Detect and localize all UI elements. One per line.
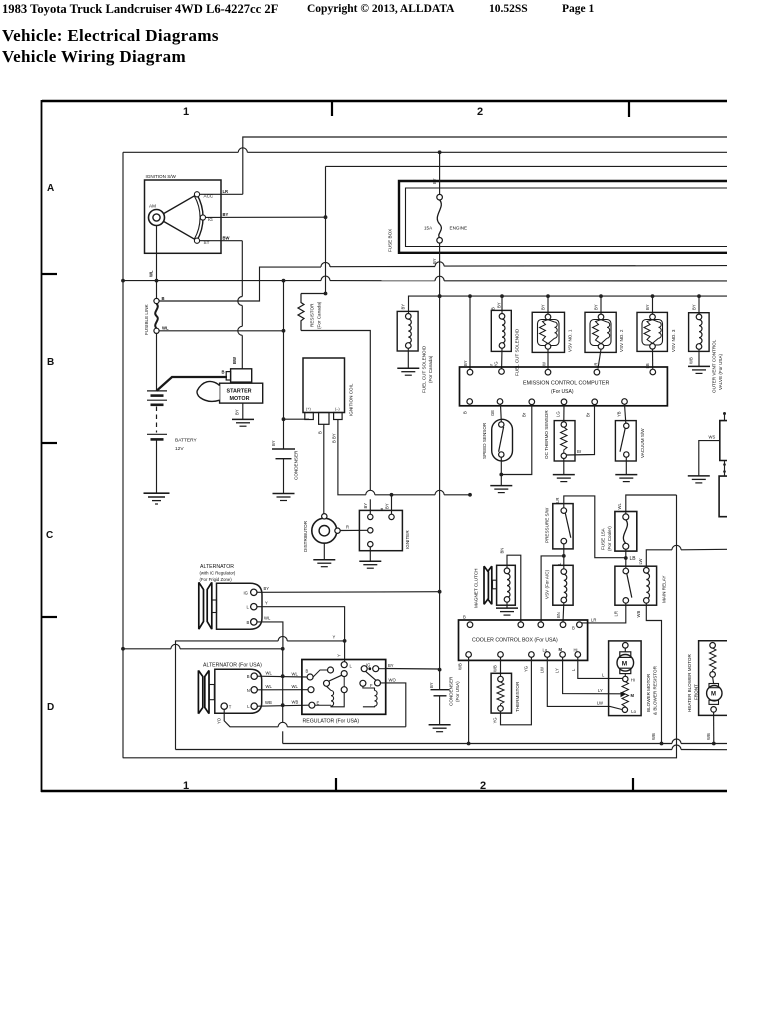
condenser USA ground: [429, 725, 451, 732]
border frame left line: [41, 100, 43, 792]
row label B: [47, 357, 54, 368]
svg-text:HEATER BLOWER MOTOR: HEATER BLOWER MOTOR: [687, 654, 692, 712]
regulator box: [302, 660, 386, 725]
svg-text:B: B: [306, 669, 309, 674]
battery ground: [144, 493, 170, 504]
svg-text:CONDENSER: CONDENSER: [294, 450, 299, 480]
svg-text:LR: LR: [223, 189, 229, 194]
wire fusible WL to x283.5: [159, 329, 285, 333]
wire LR net: ACC up and right to edge: [243, 137, 727, 194]
OC thermo sensor: [544, 405, 575, 461]
main relay box: [615, 566, 667, 605]
wire WL to regulator y648.8: [123, 644, 285, 650]
svg-text:BY: BY: [400, 304, 405, 310]
svg-text:WL: WL: [149, 270, 154, 277]
svg-text:VSV NO. 2: VSV NO. 2: [619, 329, 624, 352]
svg-text:T: T: [229, 705, 232, 710]
svg-text:M: M: [631, 693, 635, 698]
svg-text:STARTER: STARTER: [227, 388, 252, 394]
svg-text:IGNITION S/W: IGNITION S/W: [146, 174, 177, 179]
fuel cut solenoid: [489, 296, 520, 376]
battery ground wire: [156, 441, 158, 493]
starter solenoid B tab: [222, 370, 231, 381]
svg-text:B: B: [572, 626, 575, 631]
svg-text:L: L: [247, 704, 250, 709]
alternator USA label: [203, 663, 262, 669]
svg-text:OC THERMO SENSOR: OC THERMO SENSOR: [544, 410, 549, 459]
condenser ground: [273, 494, 295, 501]
magnet clutch ground: [496, 602, 518, 615]
svg-text:MAGNET CLUTCH: MAGNET CLUTCH: [474, 569, 479, 608]
svg-text:2: 2: [477, 106, 483, 118]
svg-text:BY: BY: [271, 440, 276, 446]
ignition switch box: [145, 174, 222, 253]
wire fuse engine down to BY bus and coil feed: [438, 243, 442, 671]
bottom tick 1/2: [335, 778, 337, 791]
wire B net y266 from fusible link with hops: [157, 262, 727, 301]
svg-text:R: R: [346, 525, 349, 530]
distributor ground: [313, 560, 335, 567]
regulator B terminal: [306, 667, 334, 680]
svg-text:B: B: [247, 620, 250, 625]
wire main relay LW: [638, 545, 727, 567]
svg-text:Hi: Hi: [574, 648, 578, 653]
svg-text:L: L: [571, 668, 576, 671]
wire frigid B WL down: [257, 616, 283, 649]
fusible link body: [144, 303, 158, 335]
fuel cut solenoid (For Canada): [397, 304, 433, 393]
main relay switch: [623, 568, 632, 603]
svg-text:WB: WB: [493, 665, 498, 672]
header issue number: [489, 3, 528, 15]
svg-text:B: B: [222, 370, 225, 375]
svg-text:(–): (–): [335, 407, 340, 411]
svg-text:BY: BY: [429, 682, 434, 688]
wire frigid IG BY to x439.6: [257, 586, 440, 592]
VSV No.2: [585, 296, 624, 369]
svg-text:BY: BY: [384, 503, 389, 509]
VSV (For A/C): [545, 565, 574, 605]
wire Y bus y749.5: [176, 745, 728, 750]
column label 2 top: [477, 106, 483, 118]
wire VSV AC to cooler box: [556, 603, 564, 622]
svg-text:B: B: [463, 615, 466, 620]
emission control computer box: [460, 367, 668, 406]
regulator E terminal: [309, 701, 331, 709]
page header line: [2, 2, 278, 17]
left tick A/B: [42, 273, 57, 275]
wire regulator F WO out: [381, 678, 406, 727]
svg-text:BLOWER MOTOR: BLOWER MOTOR: [646, 673, 651, 712]
svg-text:BY: BY: [645, 304, 650, 310]
svg-text:Hi: Hi: [631, 678, 635, 683]
svg-text:BATTERY: BATTERY: [175, 438, 197, 444]
svg-text:ENGINE: ENGINE: [450, 226, 468, 231]
wire USA T YO: [217, 709, 406, 726]
svg-text:BN: BN: [499, 548, 504, 554]
svg-text:FRONT: FRONT: [694, 684, 699, 700]
row label A: [47, 183, 54, 194]
regulator N terminal: [308, 687, 314, 693]
alternator USA pulley: [198, 670, 214, 713]
svg-text:IGNITION COIL: IGNITION COIL: [349, 383, 354, 416]
svg-text:LY: LY: [555, 668, 560, 673]
alternator USA body: [215, 669, 262, 713]
svg-text:WB: WB: [706, 733, 711, 740]
svg-text:VSV NO. 1: VSV NO. 1: [568, 329, 573, 352]
wire fuse cooler bottom to main relay: [625, 549, 627, 568]
magnet clutch coil box: [497, 565, 516, 605]
svg-text:B: B: [47, 357, 54, 368]
VSV No.1: [532, 296, 572, 369]
svg-text:COOLER CONTROL BOX (For USA): COOLER CONTROL BOX (For USA): [472, 638, 558, 644]
svg-text:(For Frigid Zone): (For Frigid Zone): [200, 577, 233, 582]
svg-text:WO: WO: [389, 678, 397, 683]
svg-text:OUTER VENT CONTROL: OUTER VENT CONTROL: [712, 339, 717, 393]
igniter ground wire: [369, 547, 371, 561]
wire Y net left riser x175.5: [176, 635, 345, 750]
battery cable to starter: [157, 377, 228, 391]
wire cooler Lo LW to blower: [547, 657, 622, 709]
condenser (coil): [271, 419, 299, 493]
svg-text:F: F: [370, 683, 373, 688]
svg-text:FUSIBLE LINK: FUSIBLE LINK: [144, 303, 149, 335]
heater blower motor M: [707, 677, 722, 712]
svg-text:B: B: [247, 674, 250, 679]
svg-text:& BLOWER RESISTOR: & BLOWER RESISTOR: [653, 665, 658, 715]
svg-text:(For Canada): (For Canada): [317, 301, 322, 329]
wire B net corner detail (fusible B up): [0, 0, 1, 1]
wire ECU B feed x470: [463, 296, 470, 369]
wire pressure top LR to LB junction: [555, 496, 636, 562]
column label 1 bottom: [183, 780, 189, 792]
svg-text:LG: LG: [556, 411, 561, 417]
svg-text:WL: WL: [264, 616, 271, 621]
svg-text:Y: Y: [333, 635, 336, 640]
igniter ground: [359, 561, 381, 568]
igniter terminals: [363, 503, 394, 547]
svg-text:FUSE 15A: FUSE 15A: [601, 527, 606, 550]
ignition switch IG contact: [200, 215, 213, 222]
top tick 1/2: [331, 101, 333, 116]
ignition switch AM terminal: [149, 204, 165, 226]
wire magnet clutch BN to cooler box: [499, 548, 521, 622]
wire frigid L Y to regulator: [257, 601, 347, 662]
ignition coil box: [303, 358, 354, 416]
alternator frigid labels: [200, 564, 236, 582]
svg-text:WL: WL: [617, 503, 622, 510]
svg-text:(For Canada): (For Canada): [428, 355, 433, 383]
wire vertical x123 bus (WL): [121, 152, 125, 758]
distributor ground wire: [323, 543, 325, 559]
main relay coil: [644, 568, 650, 604]
wire ST to BW vertical: [200, 235, 243, 240]
svg-text:B: B: [491, 307, 496, 310]
bottom tick 2/3: [632, 778, 634, 791]
svg-text:BY: BY: [264, 586, 270, 591]
svg-text:ALTERNATOR (For USA): ALTERNATOR (For USA): [203, 663, 262, 669]
svg-text:C: C: [46, 530, 53, 541]
svg-text:VSV (For A/C): VSV (For A/C): [545, 569, 550, 599]
svg-text:(For USA): (For USA): [455, 681, 460, 702]
regulator L terminal and relay 1: [324, 662, 353, 693]
wire cooler WB to ground bus: [467, 657, 471, 745]
fuse 15A ENGINE: [424, 152, 467, 264]
svg-text:Br: Br: [577, 449, 582, 454]
svg-text:FUSE BOX: FUSE BOX: [388, 229, 393, 252]
condenser (For USA): [429, 670, 460, 725]
speed sensor ground + branch: [490, 405, 532, 493]
svg-text:(+): (+): [306, 407, 311, 411]
svg-text:VACUUM S/W: VACUUM S/W: [640, 428, 645, 458]
vacuum switch: [615, 404, 645, 461]
svg-text:N: N: [247, 688, 250, 693]
svg-text:Br: Br: [522, 412, 527, 417]
fuse box inner border: [406, 188, 728, 247]
svg-text:WB: WB: [265, 700, 272, 705]
svg-text:LR: LR: [591, 618, 596, 623]
svg-text:LR: LR: [614, 611, 619, 616]
left tick C/D: [42, 616, 57, 618]
svg-text:WL: WL: [266, 684, 273, 689]
blower resistor: [621, 676, 637, 714]
svg-text:LR: LR: [555, 498, 560, 503]
starter ground: [232, 419, 254, 426]
row label D: [47, 702, 54, 713]
svg-text:L: L: [602, 673, 605, 678]
svg-text:WB: WB: [458, 663, 463, 670]
svg-text:Br: Br: [586, 412, 591, 417]
fusible link B terminal: [154, 281, 165, 304]
svg-text:BW: BW: [223, 235, 230, 240]
blower motor and resistor box: [609, 641, 658, 716]
svg-text:BY: BY: [388, 663, 394, 668]
wire ACC to corner: [200, 189, 243, 194]
wire main relay LR to cooler B: [579, 603, 625, 625]
header page number: [562, 3, 594, 15]
svg-text:15A: 15A: [424, 226, 433, 231]
wire WB ground bus y743.5: [283, 733, 727, 745]
wire x282.7 WB drop to ground bus: [282, 705, 284, 743]
outer vent control valve: [689, 296, 723, 393]
wire fusible WL down to battery: [156, 333, 158, 391]
connector box lower (clipped): [719, 461, 727, 517]
wire regulator BY out: [379, 663, 440, 669]
svg-text:M: M: [622, 660, 627, 667]
svg-text:WB: WB: [292, 700, 299, 705]
svg-text:Y: Y: [265, 601, 268, 606]
svg-text:BY: BY: [463, 360, 468, 366]
svg-text:BY: BY: [540, 304, 545, 310]
svg-text:YG: YG: [524, 666, 529, 672]
wire heater blower to WB bus: [706, 712, 714, 743]
igniter box: [359, 510, 410, 550]
svg-text:CONDENSER: CONDENSER: [449, 676, 454, 706]
speed sensor: [482, 404, 513, 461]
svg-text:FUEL CUT SOLENOID: FUEL CUT SOLENOID: [422, 345, 427, 393]
header copyright: [307, 3, 454, 15]
magnet clutch pulley: [474, 566, 497, 608]
svg-text:IGNITER: IGNITER: [405, 530, 410, 549]
svg-text:B: B: [381, 507, 384, 512]
wire cooler M LY to blower: [563, 657, 622, 694]
svg-text:WL: WL: [292, 684, 299, 689]
svg-text:Lo: Lo: [631, 709, 636, 714]
svg-text:WB: WB: [688, 357, 693, 364]
svg-text:LW: LW: [597, 701, 603, 706]
fusible link WL terminal: [154, 326, 169, 334]
svg-text:YO: YO: [217, 717, 222, 724]
battery 12V: [147, 391, 197, 452]
svg-text:WL: WL: [162, 326, 169, 331]
border frame top line: [42, 100, 727, 103]
wire USA B WL to regulator: [257, 671, 307, 678]
fuse 15A (For Cooler): [601, 512, 637, 552]
svg-text:WB: WB: [651, 733, 656, 740]
alternator frigid body: [217, 583, 263, 629]
outer vent ground: [688, 349, 710, 373]
svg-text:DISTRIBUTOR: DISTRIBUTOR: [303, 520, 308, 552]
border frame bottom line: [41, 790, 727, 792]
svg-text:YG: YG: [493, 717, 498, 723]
wire BY bus y296: [409, 294, 728, 313]
svg-text:LW: LW: [540, 667, 545, 673]
cooler control box: [459, 620, 588, 660]
distributor: [303, 514, 340, 552]
wire WS to ground: [688, 441, 720, 483]
svg-text:WB: WB: [636, 611, 641, 618]
top tick 2/3: [628, 101, 630, 117]
svg-text:WS: WS: [709, 435, 716, 440]
wire fuse cooler top WL feed: [617, 495, 677, 514]
svg-text:B BY: B BY: [331, 433, 336, 443]
svg-text:L: L: [350, 664, 353, 669]
ignition coil terminal tabs: [305, 413, 342, 444]
ignition switch ST contact: [194, 238, 209, 245]
wire BW vertical to starter with hops: [232, 241, 242, 369]
svg-text:FUEL CUT SOLENOID: FUEL CUT SOLENOID: [515, 328, 520, 376]
wire coil secondary to distributor: [323, 424, 325, 513]
regulator F terminal and relay 2 coil: [360, 680, 381, 707]
svg-text:M: M: [559, 647, 563, 652]
column label 2 bottom: [480, 780, 486, 792]
blower motor: [617, 643, 634, 677]
heater blower motor bracket: [687, 641, 727, 716]
svg-text:12V: 12V: [175, 446, 184, 452]
regulator relay 1 coil: [327, 686, 345, 707]
WS connector box upper (clipped): [709, 412, 728, 461]
svg-text:(with IC Regulator): (with IC Regulator): [200, 571, 236, 576]
svg-text:GE: GE: [490, 410, 495, 416]
starter solenoid box: [231, 369, 252, 382]
ECU top terminals: [467, 369, 655, 375]
svg-text:WL: WL: [292, 672, 299, 677]
wire pressure bottom junction to VSV and cooler: [541, 544, 566, 622]
title line 1: [2, 26, 219, 46]
wire BY net y166 to edge: [326, 165, 728, 167]
svg-text:BY: BY: [691, 304, 696, 310]
svg-text:BN: BN: [556, 612, 561, 618]
svg-text:BY: BY: [593, 304, 598, 310]
svg-text:RESISTOR: RESISTOR: [310, 303, 315, 327]
fuel cut solenoid canada ground: [397, 348, 419, 375]
thermo sensor ground + branch: [553, 405, 595, 482]
wire IG to BY junction: [206, 212, 326, 217]
svg-text:WL: WL: [266, 671, 273, 676]
ECU bottom terminals: [463, 399, 628, 417]
cooler box bottom terminals: [458, 647, 581, 673]
svg-text:VALVE (For USA): VALVE (For USA): [718, 353, 723, 390]
wire WL main y280.6 with junctions and hops: [123, 276, 727, 282]
wire resistor bottom to igniter BY: [301, 331, 370, 515]
ignition switch ACC contact: [194, 192, 213, 199]
svg-text:B: B: [463, 411, 468, 414]
svg-text:(For USA): (For USA): [551, 389, 574, 395]
svg-text:A: A: [47, 183, 54, 194]
svg-text:BW: BW: [232, 357, 237, 364]
svg-text:1: 1: [183, 780, 189, 792]
vacuum switch ground: [615, 457, 637, 481]
wire main relay WB down: [636, 603, 662, 743]
svg-text:IG: IG: [244, 590, 248, 595]
svg-text:BY: BY: [497, 302, 502, 308]
svg-text:Lo: Lo: [543, 648, 548, 653]
svg-text:THERMISTOR: THERMISTOR: [515, 681, 520, 712]
svg-text:D: D: [47, 702, 54, 713]
wire WL branch y152 with hop over x242.8: [123, 148, 727, 154]
svg-text:BY: BY: [432, 258, 437, 264]
svg-text:1: 1: [183, 106, 189, 118]
wire USA L WB to regulator E: [257, 700, 308, 707]
svg-text:YB: YB: [616, 411, 621, 417]
resistor (For Canada): [298, 294, 326, 331]
wire thermistor YG loop: [493, 657, 532, 725]
svg-text:MOTOR: MOTOR: [230, 396, 250, 402]
ignition switch wedge contact: [164, 194, 203, 240]
svg-text:EMISSION CONTROL COMPUTER: EMISSION CONTROL COMPUTER: [523, 381, 609, 387]
wire AM to WL junction: [149, 226, 157, 281]
starter motor body: [197, 381, 263, 403]
wire cooler Hi L to blower: [578, 657, 623, 678]
alternator frigid pulley: [199, 582, 217, 629]
row label C: [46, 530, 53, 541]
VSV No.3: [637, 296, 676, 369]
svg-text:VSV NO. 3: VSV NO. 3: [671, 329, 676, 352]
svg-text:Y: Y: [337, 654, 342, 657]
regulator IG contact: [361, 663, 379, 681]
wire BY vertical x325.5: [324, 166, 328, 295]
svg-text:B: B: [318, 431, 323, 434]
pressure switch: [545, 504, 574, 549]
svg-text:L: L: [247, 605, 250, 610]
svg-text:B: B: [162, 296, 165, 301]
svg-text:BY: BY: [223, 212, 229, 217]
cooler box top terminals: [463, 615, 582, 631]
thermistor: [491, 657, 520, 713]
title line 2: [2, 47, 186, 67]
fuse box outer border: [388, 181, 728, 253]
svg-text:PRESSURE S/W: PRESSURE S/W: [545, 507, 550, 543]
svg-text:BY: BY: [432, 178, 437, 184]
svg-text:REGULATOR (For USA): REGULATOR (For USA): [303, 719, 360, 725]
column label 1 top: [183, 106, 189, 118]
wire coil plus to condenser junction: [284, 418, 310, 420]
starter ground wire: [235, 403, 243, 419]
wire USA N WL to regulator: [257, 684, 308, 690]
wire WL vertical x283.5 down to condenser: [282, 281, 286, 422]
svg-text:LW: LW: [638, 558, 643, 564]
wire coil B BY down and right to igniter bus: [338, 420, 472, 497]
